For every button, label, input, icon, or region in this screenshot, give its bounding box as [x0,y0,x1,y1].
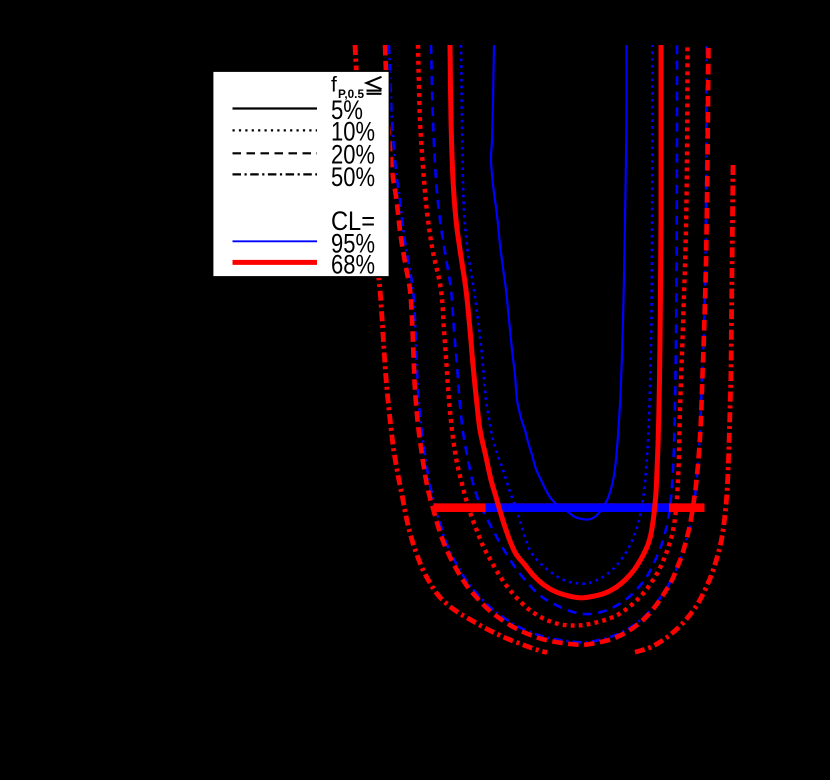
legend title less-equal symbol [367,77,382,94]
legend line dashed [233,152,318,154]
contour CL95 f5 blue solid [491,45,627,520]
svg-text:f: f [331,74,337,97]
contour CL68 f10 red dotted [418,45,688,626]
legend line red 68 [233,260,318,265]
contour CL68 f50 red dash-dot left branch [355,45,547,653]
legend line blue 95 [233,240,318,242]
legend line solid [233,107,318,109]
contour CL68 f20 red dashed [385,45,709,645]
legend line dash-dot [233,173,318,175]
interval bar red [434,503,705,512]
svg-text:50%: 50% [331,162,375,192]
legend box [213,71,390,277]
contour CL95 f10 blue dotted [461,45,653,584]
contour CL68 f50 red dash-dot right branch [634,165,733,653]
contour CL95 f50 blue dash-dot [389,45,707,642]
svg-text:68%: 68% [331,250,375,280]
interval bar blue [486,503,670,512]
legend line dotted [233,129,318,131]
contour CL95 f20 blue dashed [431,45,677,614]
contour CL68 f5 red solid thick [450,45,661,598]
